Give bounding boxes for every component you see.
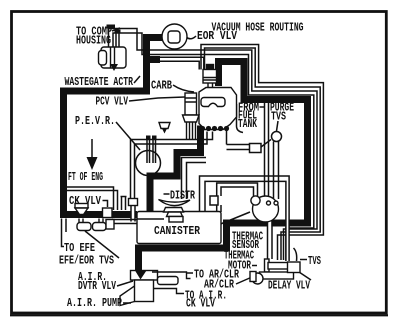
svg-text:TANK: TANK [238, 118, 257, 131]
svg-text:TVS: TVS [271, 111, 286, 124]
svg-text:CK VLV: CK VLV [69, 195, 101, 208]
svg-text:FT OF ENG: FT OF ENG [68, 171, 103, 184]
svg-text:CK VLV: CK VLV [186, 297, 215, 310]
svg-text:P.E.V.R.: P.E.V.R. [75, 115, 115, 128]
svg-text:DVTR VLV: DVTR VLV [78, 280, 116, 293]
svg-text:EFE/EOR TVS: EFE/EOR TVS [59, 255, 114, 268]
svg-text:DISTR: DISTR [170, 190, 195, 203]
svg-text:PCV VLV: PCV VLV [96, 96, 129, 109]
svg-text:HOUSING: HOUSING [76, 35, 111, 48]
svg-text:A.I.R. PUMP: A.I.R. PUMP [67, 297, 122, 310]
svg-text:TO EFE: TO EFE [64, 242, 95, 255]
svg-text:WASTEGATE ACTR: WASTEGATE ACTR [65, 76, 134, 89]
svg-text:CARB: CARB [151, 80, 172, 93]
svg-text:CANISTER: CANISTER [154, 225, 200, 238]
svg-text:EOR VLV: EOR VLV [197, 30, 237, 43]
svg-text:DELAY VLV: DELAY VLV [268, 280, 310, 293]
svg-text:TVS: TVS [308, 255, 321, 268]
